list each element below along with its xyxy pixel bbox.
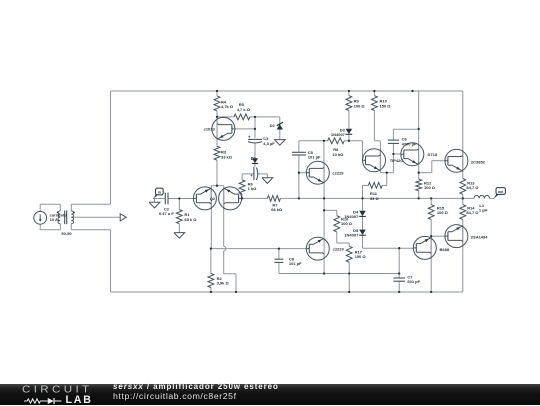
svg-text:D1: D1 bbox=[251, 156, 257, 161]
svg-text:100 Ω: 100 Ω bbox=[424, 185, 436, 190]
svg-text:1 kΩ: 1 kΩ bbox=[248, 186, 258, 191]
svg-text:100 Ω: 100 Ω bbox=[354, 103, 366, 108]
svg-text:10 kΩ: 10 kΩ bbox=[332, 152, 344, 157]
svg-text:1N4007: 1N4007 bbox=[331, 132, 346, 137]
svg-text:D2: D2 bbox=[270, 123, 276, 128]
svg-text:4,7k Ω: 4,7k Ω bbox=[221, 104, 234, 109]
svg-text:4700 pF: 4700 pF bbox=[402, 142, 417, 147]
svg-text:c2229: c2229 bbox=[333, 246, 345, 251]
svg-text:68 kΩ: 68 kΩ bbox=[271, 207, 283, 212]
svg-text:33 kΩ: 33 kΩ bbox=[221, 154, 233, 159]
svg-text:84,7 Ω: 84,7 Ω bbox=[466, 210, 479, 215]
svg-text:out: out bbox=[498, 190, 504, 194]
svg-text:101 pF: 101 pF bbox=[308, 154, 321, 159]
svg-text:33 Ω: 33 Ω bbox=[370, 196, 380, 201]
svg-text:101 pF: 101 pF bbox=[289, 261, 302, 266]
svg-text:3,9k Ω: 3,9k Ω bbox=[217, 281, 230, 286]
svg-text:B688: B688 bbox=[440, 247, 450, 252]
svg-text:68 k Ω: 68 k Ω bbox=[184, 217, 197, 222]
svg-text:in: in bbox=[158, 190, 161, 194]
svg-text:2C3852: 2C3852 bbox=[471, 160, 486, 165]
svg-text:2SA1494: 2SA1494 bbox=[471, 234, 488, 239]
svg-text:c1013: c1013 bbox=[204, 126, 216, 131]
svg-text:Q2: Q2 bbox=[210, 196, 216, 201]
svg-text:100 Ω: 100 Ω bbox=[437, 210, 449, 215]
svg-text:150 Ω: 150 Ω bbox=[355, 254, 367, 259]
svg-text:150 Ω: 150 Ω bbox=[380, 103, 392, 108]
svg-text:4,7 k Ω: 4,7 k Ω bbox=[237, 107, 251, 112]
svg-text:4,3 µF: 4,3 µF bbox=[263, 141, 275, 146]
svg-text:D718: D718 bbox=[428, 152, 438, 157]
svg-text:50-50: 50-50 bbox=[61, 231, 72, 236]
svg-text:84,7 Ω: 84,7 Ω bbox=[466, 185, 479, 190]
svg-text:1N4007: 1N4007 bbox=[344, 214, 359, 219]
svg-text:TIP42C: TIP42C bbox=[390, 158, 404, 163]
svg-text:0.47 u F: 0.47 u F bbox=[159, 211, 174, 216]
svg-text:1 µH: 1 µH bbox=[479, 208, 488, 213]
svg-text:10 A: 10 A bbox=[50, 217, 58, 222]
svg-text:601 pF: 601 pF bbox=[407, 279, 420, 284]
svg-text:100 Ω: 100 Ω bbox=[341, 221, 353, 226]
svg-text:1N4007: 1N4007 bbox=[344, 232, 359, 237]
svg-text:c2229: c2229 bbox=[332, 171, 344, 176]
